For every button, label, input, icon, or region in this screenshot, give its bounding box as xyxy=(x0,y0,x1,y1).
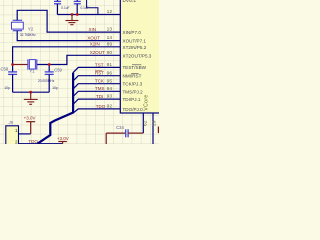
svg-text:TMS: TMS xyxy=(95,86,105,91)
svg-text:TDO: TDO xyxy=(28,139,38,144)
crystal Y1 xyxy=(28,59,37,69)
svg-text:TDI: TDI xyxy=(96,94,103,99)
svg-text:12: 12 xyxy=(107,9,113,15)
wire RST xyxy=(73,76,120,81)
crystal Y2 xyxy=(12,20,24,30)
net fragment right edge xyxy=(157,127,159,134)
wire XT2OUT net xyxy=(37,55,121,64)
svg-text:X2IN: X2IN xyxy=(90,42,100,47)
junction XT2IN-C58 xyxy=(11,63,14,66)
svg-text:VCore: VCore xyxy=(144,94,150,110)
wire TMS xyxy=(73,91,120,96)
capacitor C34 xyxy=(106,129,143,144)
svg-text:TST: TST xyxy=(95,62,104,67)
wire XT2IN net xyxy=(13,47,121,65)
wire TCK xyxy=(73,84,120,89)
wire TDO xyxy=(73,109,120,113)
svg-text:TCK/PJ.3: TCK/PJ.3 xyxy=(123,82,143,87)
ground G2 xyxy=(65,15,78,25)
svg-text:TEST/SBW: TEST/SBW xyxy=(123,65,147,70)
svg-text:1: 1 xyxy=(15,128,18,133)
wire Y1 left xyxy=(13,64,28,66)
IC U1 MSP430 block xyxy=(120,0,165,113)
svg-text:+3.0V: +3.0V xyxy=(24,115,36,120)
svg-text:62: 62 xyxy=(143,120,149,126)
svg-text:XIN/P7.0: XIN/P7.0 xyxy=(123,30,142,35)
svg-text:0.1uF: 0.1uF xyxy=(61,6,69,10)
svg-text:C34: C34 xyxy=(116,125,124,130)
svg-text:95: 95 xyxy=(107,78,113,84)
svg-text:20.000MHz: 20.000MHz xyxy=(38,79,55,83)
wire TDI xyxy=(73,99,120,104)
svg-text:91: 91 xyxy=(107,62,113,68)
junction cap C56 xyxy=(76,13,79,16)
svg-text:93: 93 xyxy=(107,94,113,100)
pin VCore stub xyxy=(142,113,144,133)
capacitor C58 xyxy=(8,65,17,93)
svg-text:DVcc1: DVcc1 xyxy=(123,0,137,3)
wire J5 pin2 TDO xyxy=(19,143,63,145)
svg-text:10p: 10p xyxy=(4,86,10,90)
svg-text:RST: RST xyxy=(95,71,104,76)
svg-text:TCK: TCK xyxy=(95,79,104,84)
svg-text:XIN: XIN xyxy=(89,27,97,32)
svg-text:89: 89 xyxy=(107,41,113,47)
svg-text:94: 94 xyxy=(107,86,113,92)
junction cap rail xyxy=(71,13,74,16)
wire XIN net xyxy=(17,10,120,32)
svg-text:+3.0V: +3.0V xyxy=(57,136,69,141)
svg-text:NMI/RST: NMI/RST xyxy=(123,74,142,79)
svg-text:13: 13 xyxy=(107,27,113,33)
junction ground rail xyxy=(29,91,32,94)
wire ground rail xyxy=(13,91,50,93)
svg-text:92: 92 xyxy=(107,104,113,110)
pin stub right xyxy=(152,113,154,144)
svg-text:XOUT/P7.1: XOUT/P7.1 xyxy=(123,39,147,44)
svg-text:96: 96 xyxy=(107,70,113,76)
wire XOUT net xyxy=(17,31,120,41)
connector J5 xyxy=(6,126,19,145)
svg-text:C58: C58 xyxy=(1,67,9,72)
capacitor C56 xyxy=(74,0,81,15)
svg-text:C59: C59 xyxy=(54,68,62,73)
svg-text:J5: J5 xyxy=(8,120,14,125)
svg-text:10p: 10p xyxy=(52,86,58,90)
svg-text:TMS/PJ.2: TMS/PJ.2 xyxy=(123,89,144,94)
wire TST xyxy=(73,67,120,72)
svg-text:Y1: Y1 xyxy=(29,69,35,74)
svg-text:32.768KHz: 32.768KHz xyxy=(20,33,36,37)
bus JTAG xyxy=(38,73,74,144)
capacitor C59 xyxy=(45,65,54,93)
power +3.0V port1 xyxy=(26,122,35,134)
svg-text:TDO: TDO xyxy=(96,104,106,109)
svg-text:XT2IN/P5.2: XT2IN/P5.2 xyxy=(123,45,147,50)
svg-text:Y2: Y2 xyxy=(28,26,34,31)
ground G1 xyxy=(24,92,38,104)
svg-text:2: 2 xyxy=(15,139,18,144)
svg-text:0.1uF: 0.1uF xyxy=(81,6,89,10)
svg-text:X2OUT: X2OUT xyxy=(90,50,105,55)
svg-text:TDO/PJ.0: TDO/PJ.0 xyxy=(123,107,144,112)
svg-text:29: 29 xyxy=(152,120,158,126)
wire top pin xyxy=(87,0,98,15)
svg-text:TDI/PJ.1: TDI/PJ.1 xyxy=(123,97,141,102)
power +3.0V port2 xyxy=(58,142,66,144)
svg-text:90: 90 xyxy=(107,50,113,56)
svg-text:XT2OUT/P5.3: XT2OUT/P5.3 xyxy=(123,53,152,58)
junction XT2OUT-C59 xyxy=(48,63,51,66)
capacitor C55 xyxy=(54,0,61,15)
svg-text:XOUT: XOUT xyxy=(87,36,100,41)
svg-text:14: 14 xyxy=(107,35,113,41)
wire J5 pin1 xyxy=(19,133,31,135)
wire cap rail xyxy=(57,14,120,16)
